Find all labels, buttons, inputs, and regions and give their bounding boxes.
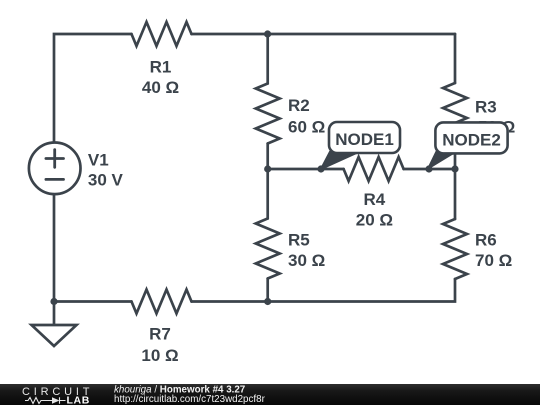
- svg-text:R3: R3: [475, 97, 497, 116]
- footer bar: [0, 384, 540, 405]
- svg-text:30 V: 30 V: [88, 170, 124, 189]
- node NODE2 callout box: [435, 122, 507, 153]
- svg-text:10 Ω: 10 Ω: [141, 346, 178, 365]
- wire R4 right to right branch: [404, 168, 455, 171]
- wire R3 to node2 junction to R6: [454, 143, 457, 219]
- node NODE2 callout tail: [428, 152, 455, 168]
- svg-text:60 Ω: 60 Ω: [288, 118, 325, 137]
- resistor R7: [132, 290, 192, 314]
- svg-text:NODE2: NODE2: [442, 130, 501, 149]
- svg-text:R7: R7: [149, 325, 171, 344]
- svg-text:30 Ω: 30 Ω: [288, 251, 325, 270]
- wire top from R1 to top-right corner: [192, 33, 456, 36]
- svg-text:R6: R6: [475, 231, 497, 250]
- node junction dot middle-right: [451, 165, 458, 172]
- resistor R3: [443, 83, 467, 143]
- resistor R4: [344, 157, 404, 181]
- resistor R2: [256, 84, 280, 144]
- resistor R5: [256, 219, 280, 279]
- resistor R1: [132, 22, 192, 46]
- node NODE1 callout tail: [321, 152, 359, 169]
- svg-text:LAB: LAB: [67, 395, 90, 405]
- svg-text:NODE1: NODE1: [335, 130, 394, 149]
- ground: [32, 302, 77, 347]
- node junction dot top: [264, 30, 271, 37]
- svg-text:70 Ω: 70 Ω: [475, 251, 512, 270]
- voltage source V1: [29, 143, 81, 195]
- wire right top lead of R3: [454, 34, 457, 83]
- resistor R6: [443, 219, 467, 279]
- svg-text:R2: R2: [288, 96, 310, 115]
- svg-text:V1: V1: [88, 151, 109, 170]
- wire R2 bottom to R5 top: [266, 144, 269, 219]
- svg-text:R4: R4: [364, 190, 386, 209]
- node junction dot middle-left: [264, 165, 271, 172]
- svg-text:R1: R1: [150, 58, 172, 77]
- node junction dot bottom-middle: [264, 298, 271, 305]
- svg-text:http://circuitlab.com/c7t23wd2: http://circuitlab.com/c7t23wd2pcf8r: [114, 394, 266, 405]
- wire bottom-right corner: [192, 279, 456, 302]
- svg-text:40 Ω: 40 Ω: [142, 78, 179, 97]
- wire bottom-left from R7 to V1 bottom: [54, 195, 132, 301]
- node junction dot bottom-left: [50, 298, 57, 305]
- wire R5 bottom lead: [266, 279, 269, 302]
- svg-text:R5: R5: [288, 230, 310, 249]
- CircuitLab logo zigzag-diode: [25, 397, 66, 404]
- wire middle from node1 junction to R4: [268, 168, 344, 171]
- node NODE1 junction dot: [317, 165, 324, 172]
- wire top-left from V1 to R1: [54, 34, 132, 142]
- node NODE1 callout box: [329, 122, 400, 153]
- wire R2 top lead: [266, 34, 269, 84]
- node NODE2 junction dot: [425, 165, 432, 172]
- svg-text:20 Ω: 20 Ω: [356, 211, 393, 230]
